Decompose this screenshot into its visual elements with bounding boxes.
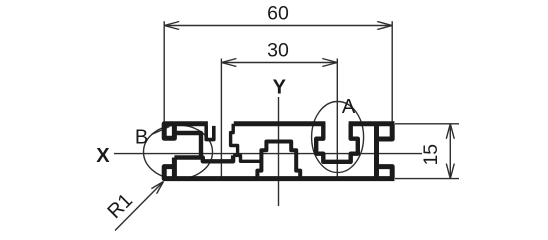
svg-text:60: 60 (267, 3, 289, 25)
svg-text:15: 15 (420, 144, 442, 166)
svg-text:Y: Y (273, 76, 287, 98)
svg-text:B: B (135, 127, 148, 149)
svg-text:30: 30 (267, 40, 289, 62)
svg-text:A: A (342, 96, 356, 118)
svg-text:R1: R1 (103, 189, 137, 223)
svg-text:X: X (96, 145, 110, 167)
